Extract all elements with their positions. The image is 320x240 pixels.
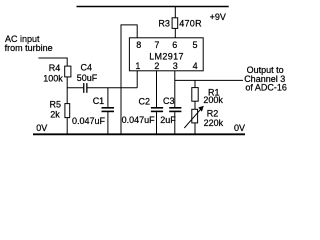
svg-text:470R: 470R <box>179 19 202 29</box>
svg-text:R4: R4 <box>49 63 61 73</box>
svg-text:100k: 100k <box>43 73 63 83</box>
svg-text:C4: C4 <box>81 63 93 73</box>
svg-text:0.047uF: 0.047uF <box>72 116 106 126</box>
svg-text:0.047uF: 0.047uF <box>122 115 156 125</box>
svg-text:2k: 2k <box>50 109 60 119</box>
svg-text:R3: R3 <box>158 19 170 29</box>
svg-text:5: 5 <box>193 40 198 50</box>
svg-text:2uF: 2uF <box>160 115 176 125</box>
svg-text:0V: 0V <box>234 123 245 133</box>
svg-text:4: 4 <box>193 61 198 71</box>
svg-text:7: 7 <box>154 40 159 50</box>
svg-text:R5: R5 <box>50 99 62 109</box>
svg-text:50uF: 50uF <box>77 73 98 83</box>
svg-text:from turbine: from turbine <box>5 43 53 53</box>
svg-text:220k: 220k <box>204 118 224 128</box>
svg-text:2: 2 <box>154 61 159 71</box>
svg-text:C2: C2 <box>139 97 151 107</box>
svg-text:200k: 200k <box>203 95 223 105</box>
svg-text:3: 3 <box>173 61 178 71</box>
svg-text:6: 6 <box>172 40 177 50</box>
svg-text:C1: C1 <box>93 96 105 106</box>
svg-text:of ADC-16: of ADC-16 <box>245 83 287 93</box>
svg-text:C3: C3 <box>163 96 175 106</box>
svg-text:+9V: +9V <box>210 12 226 22</box>
svg-text:0V: 0V <box>36 123 47 133</box>
svg-text:1: 1 <box>135 61 140 71</box>
svg-text:8: 8 <box>136 40 141 50</box>
